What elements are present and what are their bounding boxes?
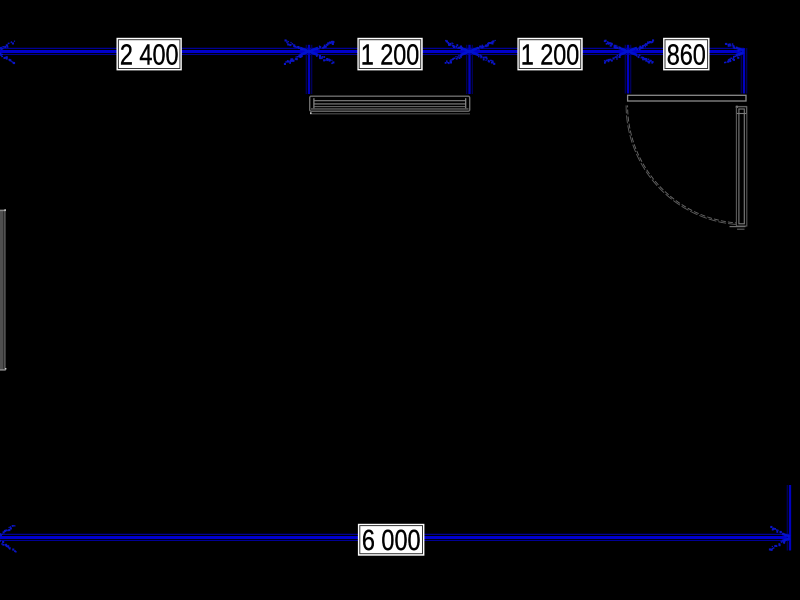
extension line at x=628 (junction 1 200 / 860) — [625, 45, 631, 94]
dim label "2 400" — [117, 38, 182, 71]
left wall window fragment (cut off at screen edge) — [0, 209, 6, 370]
svg-text:2 400: 2 400 — [120, 38, 179, 71]
arrowhead right end of bottom dimension at x=790 (points right) — [769, 526, 790, 551]
door D1 swing arc (double line) — [626, 105, 736, 224]
extension line at x=309 (junction 2 400 / 1 200) — [306, 45, 312, 94]
window W1 (top wall, plan symbol) — [310, 96, 470, 111]
dimension line: bottom overall (x 0..790) — [0, 534, 790, 540]
arrowheads butterfly at junction x=628 — [604, 39, 654, 63]
door D1 hinge plate at top of leaf — [736, 106, 747, 114]
arrowhead left end of bottom dimension (tip cut at screen edge) — [0, 525, 17, 553]
svg-text:1 200: 1 200 — [521, 38, 580, 71]
door D1 leaf (open, vertical) — [730, 107, 747, 229]
extension line at x=744 (right end of top chain) — [741, 48, 747, 94]
arrowheads butterfly at junction x=469.5 — [445, 40, 496, 65]
window sill line below W1 — [310, 112, 470, 114]
svg-text:6 000: 6 000 — [362, 524, 421, 557]
svg-text:860: 860 — [667, 38, 706, 71]
dim label "1 200" (first) — [357, 38, 422, 71]
extension line at x=790 (right end of bottom dimension) — [787, 485, 790, 551]
dim label "6 000" — [358, 524, 425, 557]
extension line at x=469.5 (junction 1 200 / 1 200) — [467, 45, 473, 94]
dimension line: top chain (x 0..744) — [0, 48, 744, 54]
arrowheads butterfly at junction x=309 — [284, 39, 335, 65]
dim label "1 200" (second) — [517, 38, 582, 71]
door D1 head/frame (top wall) — [628, 95, 746, 101]
dim label "860" — [663, 38, 709, 71]
arrowhead left end of top chain (tip cut at screen edge) — [0, 41, 15, 65]
arrowhead right end of top chain at x=744 (points right) — [724, 43, 744, 63]
svg-text:1 200: 1 200 — [361, 38, 420, 71]
